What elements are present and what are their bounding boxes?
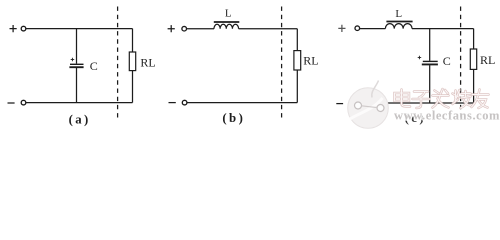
minus terminal sign (a) [8,102,15,104]
svg-text:RL: RL [303,54,318,68]
input terminal top (c) [355,26,360,31]
plus terminal sign (b) [168,25,175,32]
watermark chinese text zi [413,92,430,109]
label L (b) [225,8,232,20]
svg-text:(b): (b) [222,111,245,125]
wire right drop (a) [132,29,134,52]
watermark logo disc [348,81,389,129]
wire right drop (c) [473,29,475,49]
wire cap branch bottom (c) [429,65,431,103]
watermark chinese text fa [433,89,449,108]
label L (c) [395,8,402,20]
label C (c) [443,54,451,68]
capacitor C1 top plate (a) [70,63,84,65]
wire to inductor (b) [187,28,215,30]
inductor L core bar (c) [386,21,412,23]
caption (b) [222,111,245,125]
wire right drop (b) [296,29,298,51]
resistor RL (c) [470,49,476,69]
svg-text:L: L [395,8,402,20]
input terminal top (a) [21,26,26,31]
input terminal bottom (c) [355,101,360,106]
svg-text:RL: RL [140,55,155,69]
svg-text:www.elecfans.com: www.elecfans.com [394,109,500,123]
resistor RL (a) [129,52,135,71]
plus terminal sign (c) [338,25,345,32]
wire RL to bottom (b) [296,70,298,103]
input terminal top (b) [182,26,187,31]
wire bottom (a) [26,102,133,104]
dashed boundary (a) [117,7,119,121]
dashed boundary (b) [281,7,283,121]
watermark chinese text you [472,90,489,109]
input terminal bottom (a) [21,100,26,105]
caption (c) [405,111,426,125]
wire RL to bottom (a) [132,71,134,103]
watermark url www.elecfans.com [394,109,500,123]
label RL (c) [480,53,495,67]
svg-text:(a): (a) [69,113,91,127]
wire to inductor (c) [360,28,386,30]
wire bottom (c) [360,102,474,104]
capacitor C1 polarity plus (a) [71,58,75,62]
wire cap branch top (c) [429,29,431,61]
svg-text:C: C [443,54,451,68]
minus terminal sign (c) [336,103,343,105]
watermark chinese text dian [395,90,411,107]
wire cap branch bottom (a) [76,68,78,103]
dashed boundary (c) [460,7,462,121]
svg-text:L: L [225,8,232,20]
caption (a) [69,113,91,127]
label RL (a) [140,55,155,69]
resistor RL (b) [294,51,301,70]
wire inductor to corner (c) [412,28,474,30]
minus terminal sign (b) [169,102,176,104]
capacitor C2 bottom plate (c) [422,63,438,65]
input terminal bottom (b) [182,100,187,105]
wire cap branch top (a) [76,29,78,64]
svg-text:RL: RL [480,53,495,67]
svg-text:C: C [90,59,98,73]
inductor L core bar (b) [214,21,240,23]
watermark chinese text shao [453,90,471,108]
capacitor C1 bottom plate (a) [69,66,83,68]
label RL (b) [303,54,318,68]
wire bottom (b) [187,102,297,104]
wire top (a) [26,28,133,30]
capacitor C2 polarity plus (c) [418,56,422,60]
wire inductor to corner (b) [239,28,298,30]
inductor L coil (b) [214,24,239,28]
plus terminal sign (a) [10,25,17,32]
wire RL to bottom (c) [473,69,475,103]
label C (a) [90,59,98,73]
capacitor C2 top plate (c) [423,60,438,62]
inductor L coil (c) [385,24,412,29]
